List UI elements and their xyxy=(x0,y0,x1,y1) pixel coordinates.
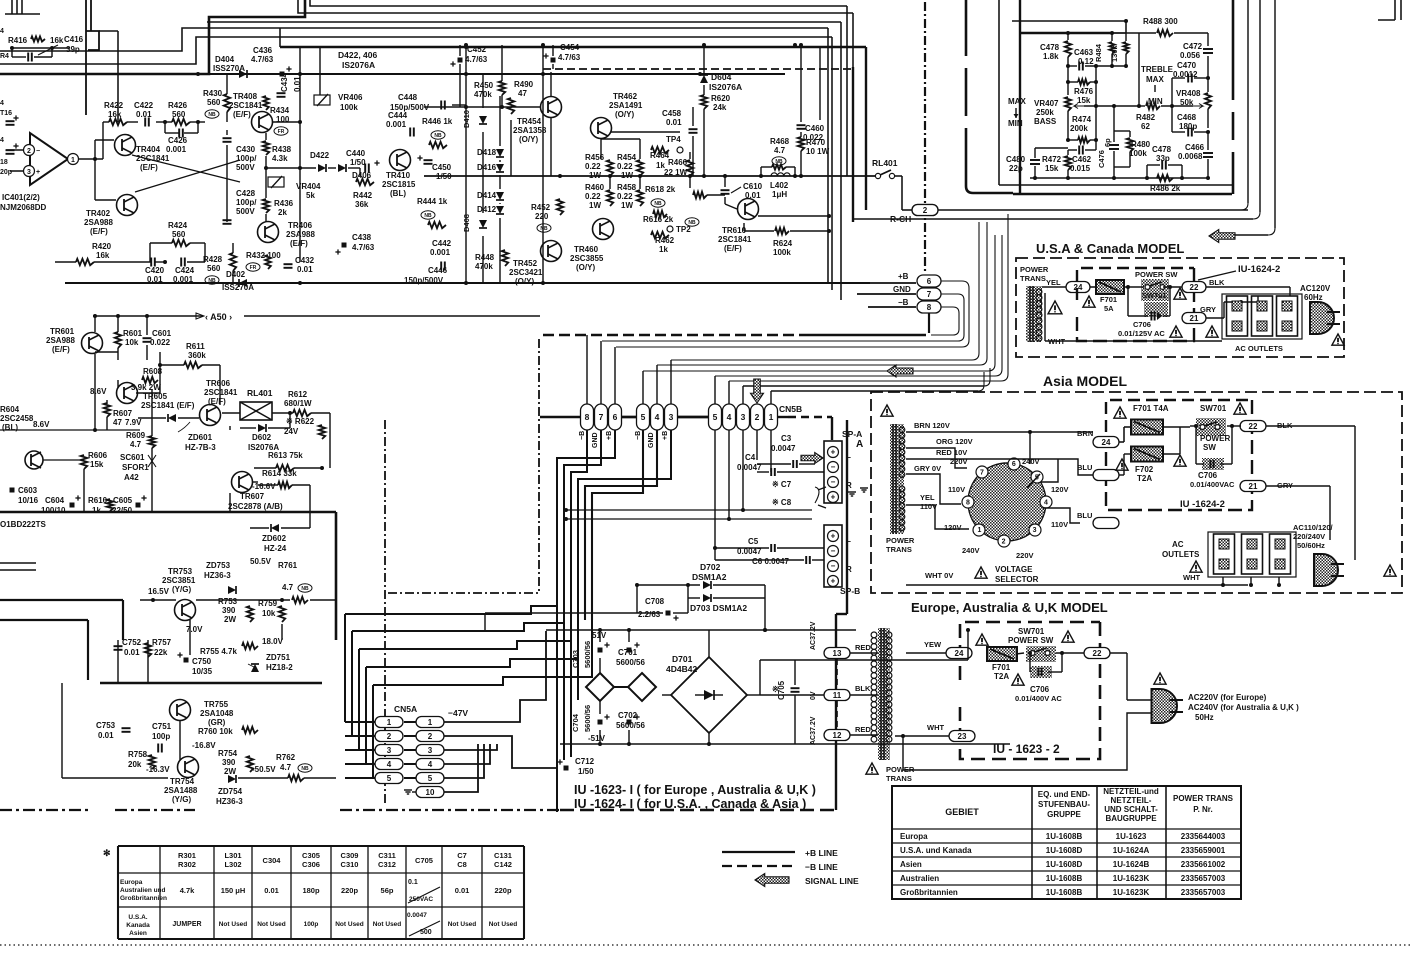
svg-text:P. Nr.: P. Nr. xyxy=(1193,805,1212,814)
svg-text:R613 75k: R613 75k xyxy=(268,451,303,460)
svg-text:C432: C432 xyxy=(295,256,315,265)
dotted page bottom line xyxy=(0,944,1412,946)
svg-text:F701: F701 xyxy=(1100,295,1117,304)
svg-text:AC110/120/: AC110/120/ xyxy=(1293,523,1334,532)
svg-text:GND: GND xyxy=(648,432,655,448)
svg-text:VR408: VR408 xyxy=(1176,89,1201,98)
svg-text:8: 8 xyxy=(966,500,970,507)
svg-text:R301: R301 xyxy=(178,851,196,860)
headphone jack symbol xyxy=(815,487,819,503)
svg-text:56p: 56p xyxy=(381,886,394,895)
pin 12 xyxy=(824,730,850,741)
svg-text:5: 5 xyxy=(428,774,433,783)
speaker terminal SP-A xyxy=(824,441,842,503)
wire dash-dot divider bottom left xyxy=(0,809,90,811)
svg-text:-16.8V: -16.8V xyxy=(192,741,216,750)
transistor TR755 xyxy=(170,700,191,721)
svg-text:20k: 20k xyxy=(128,760,142,769)
svg-text:100k: 100k xyxy=(773,248,791,257)
svg-text:4: 4 xyxy=(1044,500,1048,507)
svg-text:0.022: 0.022 xyxy=(803,133,824,142)
svg-text:2: 2 xyxy=(1002,538,1006,545)
svg-text:C8: C8 xyxy=(457,860,467,869)
wire right vertical drop bus xyxy=(827,28,829,283)
svg-text:C603: C603 xyxy=(18,486,38,495)
svg-text:R759: R759 xyxy=(258,599,278,608)
svg-text:240V: 240V xyxy=(962,546,980,555)
svg-text:Not Used: Not Used xyxy=(373,921,402,928)
svg-text:WHT: WHT xyxy=(1183,573,1200,582)
fuse F701 T4A asia xyxy=(1131,420,1163,435)
svg-text:3: 3 xyxy=(428,746,433,755)
svg-text:C454: C454 xyxy=(560,43,580,52)
svg-text:IU -1624-2: IU -1624-2 xyxy=(1180,499,1225,510)
svg-text:Australien und: Australien und xyxy=(120,887,166,894)
svg-text:UND SCHALT-: UND SCHALT- xyxy=(1104,805,1158,814)
svg-text:R434: R434 xyxy=(270,106,290,115)
svg-text:250k: 250k xyxy=(1036,108,1054,117)
USA model dashed box xyxy=(1016,258,1344,357)
svg-text:BRN 120V: BRN 120V xyxy=(914,421,950,430)
svg-text:GRY: GRY xyxy=(1200,305,1216,314)
svg-text:22/50: 22/50 xyxy=(112,506,133,515)
svg-text:C480: C480 xyxy=(1006,155,1026,164)
wire x801 column xyxy=(800,45,802,122)
svg-text:NETZTEIL-: NETZTEIL- xyxy=(1111,796,1152,805)
wire top-left corner stubs xyxy=(11,0,13,14)
svg-text:T16: T16 xyxy=(0,110,12,117)
svg-text:WHT 0V: WHT 0V xyxy=(925,571,953,580)
svg-text:500V: 500V xyxy=(236,163,255,172)
svg-text:O1BD222TS: O1BD222TS xyxy=(0,520,46,529)
svg-text:10k: 10k xyxy=(262,609,276,618)
connector pin 2 R-CH overdraw xyxy=(912,205,938,216)
svg-text:AC37.2V: AC37.2V xyxy=(810,716,817,745)
svg-text:※: ※ xyxy=(772,685,779,694)
svg-text:A42: A42 xyxy=(124,473,139,482)
svg-text:3: 3 xyxy=(669,412,674,422)
svg-text:L402: L402 xyxy=(770,181,789,190)
switch SW701 usa xyxy=(1141,279,1169,301)
pin 13 xyxy=(824,648,850,659)
svg-text:50.5V: 50.5V xyxy=(250,557,272,566)
svg-text:21: 21 xyxy=(1249,482,1258,491)
svg-text:560: 560 xyxy=(207,98,221,107)
svg-text:TP2: TP2 xyxy=(676,225,691,234)
svg-text:C438: C438 xyxy=(352,233,372,242)
wire thick stair bundle mid xyxy=(345,606,557,614)
svg-text:2SA1048: 2SA1048 xyxy=(200,709,234,718)
svg-text:4.7: 4.7 xyxy=(280,763,292,772)
svg-text:C704: C704 xyxy=(571,713,580,732)
wire dashed -B y69 xyxy=(543,68,853,70)
wire thick vertical x866 xyxy=(865,47,867,210)
svg-text:2SC1841: 2SC1841 xyxy=(229,101,263,110)
svg-text:R606: R606 xyxy=(88,451,108,460)
svg-text:18.0V: 18.0V xyxy=(262,637,284,646)
transistor TR605 xyxy=(117,383,138,404)
svg-text:SW701: SW701 xyxy=(1142,291,1167,300)
svg-text:SP-B: SP-B xyxy=(840,586,860,596)
svg-text:GEBIET: GEBIET xyxy=(945,807,979,817)
asia model dashed box xyxy=(871,392,1402,593)
svg-text:A: A xyxy=(856,439,863,450)
svg-text:4: 4 xyxy=(655,412,660,422)
svg-text:(E/F): (E/F) xyxy=(52,345,70,354)
svg-text:22p: 22p xyxy=(1009,164,1023,173)
wire C452 C454 columns xyxy=(459,45,461,56)
svg-text:R454: R454 xyxy=(617,153,637,162)
pin 21 asia xyxy=(1240,481,1266,492)
table GEBIET bottom-right xyxy=(892,786,1241,899)
svg-text:(O/Y): (O/Y) xyxy=(519,135,538,144)
svg-text:(BL): (BL) xyxy=(390,189,406,198)
svg-text:−B: −B xyxy=(898,298,909,307)
svg-text:12: 12 xyxy=(833,731,842,740)
svg-text:4.7/63: 4.7/63 xyxy=(558,53,581,62)
svg-text:2SC1841 (E/F): 2SC1841 (E/F) xyxy=(141,401,195,410)
svg-text:DSM1A2: DSM1A2 xyxy=(692,572,727,582)
svg-text:C442: C442 xyxy=(432,239,452,248)
wire amp-right rails xyxy=(464,43,468,47)
svg-text:0.01/125V AC: 0.01/125V AC xyxy=(1118,329,1165,338)
wire thick rail y47 xyxy=(280,46,866,48)
svg-text:220p: 220p xyxy=(494,886,512,895)
svg-text:5600/56: 5600/56 xyxy=(583,705,592,732)
svg-text:D422, 406: D422, 406 xyxy=(338,50,377,60)
svg-text:RED: RED xyxy=(855,725,871,734)
svg-text:D701: D701 xyxy=(672,654,693,664)
svg-text:R444 1k: R444 1k xyxy=(417,197,448,206)
svg-text:62: 62 xyxy=(1141,122,1150,131)
svg-text:F701 T4A: F701 T4A xyxy=(1133,404,1169,413)
wire regulator bottom xyxy=(62,777,168,779)
capacitor C706 usa xyxy=(1144,302,1168,317)
svg-text:1U-1623K: 1U-1623K xyxy=(1113,888,1150,897)
wire vertical dashes pin col xyxy=(836,659,838,689)
svg-text:HZ-7B-3: HZ-7B-3 xyxy=(185,443,216,452)
svg-text:R490: R490 xyxy=(514,80,534,89)
svg-text:5k: 5k xyxy=(306,191,315,200)
pin 22 asia xyxy=(1240,421,1266,432)
svg-text:(O/Y): (O/Y) xyxy=(576,263,595,272)
svg-text:200k: 200k xyxy=(1070,124,1088,133)
svg-text:50/60Hz: 50/60Hz xyxy=(1297,541,1325,550)
plug usa xyxy=(1310,302,1334,334)
wire TR610 emitter to bus xyxy=(758,215,829,217)
svg-text:R458: R458 xyxy=(617,183,637,192)
svg-text:100p: 100p xyxy=(304,921,319,928)
svg-text:4: 4 xyxy=(387,760,392,769)
svg-text:+: + xyxy=(831,532,836,541)
wire TR404 base xyxy=(94,140,96,159)
svg-text:5600/56: 5600/56 xyxy=(616,658,645,667)
svg-text:4.7: 4.7 xyxy=(282,583,294,592)
svg-text:2SC3851: 2SC3851 xyxy=(162,576,196,585)
svg-text:36k: 36k xyxy=(355,200,369,209)
svg-text:C476: C476 xyxy=(1097,150,1106,168)
svg-text:IU -1624- I ( for U.S.A. , Ca: IU -1624- I ( for U.S.A. , Canada & Asia… xyxy=(574,797,806,811)
svg-text:TR610: TR610 xyxy=(722,226,747,235)
svg-text:0.0047: 0.0047 xyxy=(771,444,796,453)
svg-text:R422: R422 xyxy=(104,101,124,110)
svg-text:R432 100: R432 100 xyxy=(246,251,281,260)
wire left edge stubs y563 xyxy=(0,562,36,564)
svg-text:R620: R620 xyxy=(711,94,731,103)
svg-text:FR: FR xyxy=(250,265,257,271)
wire bracket x99 xyxy=(86,31,99,50)
svg-text:2SC1841: 2SC1841 xyxy=(136,154,170,163)
svg-text:IS2076A: IS2076A xyxy=(709,82,742,92)
svg-text:R612: R612 xyxy=(288,390,308,399)
svg-text:1.8k: 1.8k xyxy=(1043,52,1059,61)
svg-text:3: 3 xyxy=(387,746,392,755)
svg-text:ZD751: ZD751 xyxy=(266,653,291,662)
AC outlets usa xyxy=(1227,296,1248,336)
svg-text:R760 10k: R760 10k xyxy=(198,727,233,736)
svg-text:C306: C306 xyxy=(302,860,320,869)
svg-text:4: 4 xyxy=(428,760,433,769)
svg-text:MAX: MAX xyxy=(1008,97,1026,106)
op-amp IC401 1/2 xyxy=(30,133,68,185)
svg-text:2335657003: 2335657003 xyxy=(1181,888,1226,897)
svg-text:4: 4 xyxy=(727,412,732,422)
svg-text:-51V: -51V xyxy=(588,734,606,743)
svg-text:R614 33k: R614 33k xyxy=(262,469,297,478)
svg-text:BAUGRUPPE: BAUGRUPPE xyxy=(1105,814,1157,823)
svg-text:0.01/400VAC: 0.01/400VAC xyxy=(1190,480,1235,489)
svg-text:SFOR1: SFOR1 xyxy=(122,463,149,472)
svg-text:0.22: 0.22 xyxy=(617,192,633,201)
svg-text:MIN: MIN xyxy=(1008,119,1023,128)
svg-text:Europe, Australia & U,K MODEL: Europe, Australia & U,K MODEL xyxy=(911,600,1108,615)
svg-text:1U-1608B: 1U-1608B xyxy=(1046,874,1083,883)
capacitor C706 asia xyxy=(1202,458,1224,470)
svg-text:0.0047: 0.0047 xyxy=(407,912,427,919)
svg-text:390: 390 xyxy=(222,758,236,767)
svg-text:D414: D414 xyxy=(477,191,497,200)
svg-text:Europa: Europa xyxy=(900,832,928,841)
svg-text:L301: L301 xyxy=(224,851,241,860)
svg-text:0.001: 0.001 xyxy=(166,145,187,154)
svg-text:C460: C460 xyxy=(805,124,825,133)
svg-text:−: − xyxy=(831,478,836,487)
svg-text:-16.3V: -16.3V xyxy=(146,765,170,774)
AC outlets asia xyxy=(1214,534,1235,574)
svg-text:R754: R754 xyxy=(218,749,238,758)
svg-text:C440: C440 xyxy=(346,149,366,158)
svg-text:BLK: BLK xyxy=(855,684,871,693)
svg-text:+B: +B xyxy=(606,431,613,440)
wire vertical x86 x91 xyxy=(85,0,87,115)
svg-text:BASS: BASS xyxy=(1034,117,1057,126)
svg-text:Not Used: Not Used xyxy=(448,921,477,928)
svg-text:150 μH: 150 μH xyxy=(221,886,246,895)
svg-text:(E/F): (E/F) xyxy=(290,239,308,248)
svg-text:2: 2 xyxy=(27,148,31,155)
wire CN5A staircase left bundle xyxy=(344,614,346,722)
svg-text:RED 10V: RED 10V xyxy=(936,448,967,457)
svg-text:7.0V: 7.0V xyxy=(186,625,203,634)
signal arrow left on hook line xyxy=(887,365,913,377)
svg-text:FR: FR xyxy=(278,129,285,135)
transistor TR753 xyxy=(175,600,196,621)
wire relay drive xyxy=(222,412,240,414)
wire protection extra xyxy=(95,351,118,353)
svg-text:(E/F): (E/F) xyxy=(233,110,251,119)
svg-text:TR402: TR402 xyxy=(86,209,111,218)
svg-text:C750: C750 xyxy=(192,657,212,666)
svg-text:C466: C466 xyxy=(1185,143,1205,152)
svg-text:60Hz: 60Hz xyxy=(1304,293,1323,302)
wire thick bus y513 xyxy=(0,511,336,514)
svg-text:SW701: SW701 xyxy=(1200,404,1227,413)
svg-text:SP-A: SP-A xyxy=(842,429,862,439)
svg-text:NJM2068DD: NJM2068DD xyxy=(0,203,46,212)
wire europe xyxy=(906,652,946,654)
connector pin 2 R-CH xyxy=(912,205,938,216)
svg-text:100/10: 100/10 xyxy=(41,506,66,515)
svg-text:47: 47 xyxy=(113,418,122,427)
svg-text:4.7/63: 4.7/63 xyxy=(465,55,488,64)
svg-text:VR407: VR407 xyxy=(1034,99,1059,108)
resistor R476 15k xyxy=(1068,81,1078,83)
svg-text:C430: C430 xyxy=(236,145,256,154)
svg-text:(E/F): (E/F) xyxy=(140,163,158,172)
svg-text:ORG 120V: ORG 120V xyxy=(936,437,973,446)
svg-text:2SC3421: 2SC3421 xyxy=(509,268,543,277)
connector row pills 5 4 3 xyxy=(637,404,650,430)
svg-text:4: 4 xyxy=(0,28,4,35)
svg-text:8: 8 xyxy=(927,303,932,312)
diode D703 DSM1A2 xyxy=(688,597,700,599)
svg-text:NB: NB xyxy=(208,112,216,118)
svg-text:TR462: TR462 xyxy=(613,92,638,101)
svg-text:R426: R426 xyxy=(168,101,188,110)
svg-text:2: 2 xyxy=(923,206,928,215)
svg-text:3: 3 xyxy=(27,169,31,176)
svg-text:220p: 220p xyxy=(341,886,359,895)
svg-text:Asien: Asien xyxy=(129,930,147,937)
svg-text:D416: D416 xyxy=(477,163,497,172)
svg-text:R484: R484 xyxy=(1094,43,1103,62)
svg-text:C304: C304 xyxy=(263,856,282,865)
svg-text:C5: C5 xyxy=(748,537,759,546)
transistor TR402 xyxy=(117,195,138,216)
svg-text:SELECTOR: SELECTOR xyxy=(995,575,1039,584)
svg-text:0.015: 0.015 xyxy=(1070,164,1091,173)
svg-text:1U-1623: 1U-1623 xyxy=(1116,832,1147,841)
svg-text:R761: R761 xyxy=(278,561,298,570)
svg-text:+B LINE: +B LINE xyxy=(805,848,838,858)
svg-text:VOLTAGE: VOLTAGE xyxy=(995,565,1033,574)
svg-text:R618 2k: R618 2k xyxy=(645,185,676,194)
svg-text:0.01: 0.01 xyxy=(666,118,682,127)
svg-text:22: 22 xyxy=(1093,649,1102,658)
svg-text:4: 4 xyxy=(0,100,4,107)
wire thick dashed border y335 xyxy=(543,334,800,337)
transistor TR454 xyxy=(541,97,562,118)
wire nested hooks second set xyxy=(671,222,979,360)
wire thick dashed vertical x966 xyxy=(965,0,968,56)
wire bus staircase top-left thick xyxy=(0,0,305,74)
svg-text:C446: C446 xyxy=(428,266,448,275)
svg-text:0.22: 0.22 xyxy=(585,162,601,171)
svg-text:HZ18-2: HZ18-2 xyxy=(266,663,293,672)
svg-text:(GR): (GR) xyxy=(208,718,226,727)
svg-text:HZ36-3: HZ36-3 xyxy=(216,797,243,806)
connector row pills 8 7 6 xyxy=(581,404,594,430)
svg-text:POWER TRANS: POWER TRANS xyxy=(1173,794,1234,803)
svg-text:15k: 15k xyxy=(1077,96,1091,105)
svg-text:5: 5 xyxy=(387,774,392,783)
pin 24 usa xyxy=(1066,282,1090,293)
wire amp input row xyxy=(103,121,109,123)
svg-text:C706: C706 xyxy=(1133,320,1151,329)
svg-text:R450: R450 xyxy=(474,81,494,90)
transistor TR607 xyxy=(232,472,253,493)
transistor TR408 xyxy=(252,112,273,133)
svg-text:GND: GND xyxy=(592,432,599,448)
svg-text:2335659001: 2335659001 xyxy=(1181,846,1226,855)
svg-text:C706: C706 xyxy=(1030,685,1050,694)
svg-text:4.7: 4.7 xyxy=(774,146,786,155)
svg-text:2335644003: 2335644003 xyxy=(1181,832,1226,841)
svg-text:220V: 220V xyxy=(1016,551,1034,560)
svg-text:R4: R4 xyxy=(0,53,9,60)
svg-text:1k: 1k xyxy=(659,245,668,254)
svg-text:U.S.A.: U.S.A. xyxy=(128,914,147,921)
wire regulator mid rail xyxy=(100,682,322,684)
europe thick dashed box IU-1623-2 xyxy=(960,622,1100,680)
svg-text:110V: 110V xyxy=(1051,520,1068,529)
svg-text:R482: R482 xyxy=(1136,113,1156,122)
wire output bus y176 xyxy=(424,175,875,177)
wire long rail y74 xyxy=(209,73,785,75)
svg-text:C462: C462 xyxy=(1072,155,1092,164)
svg-text:TR410: TR410 xyxy=(386,171,411,180)
capacitor C462 0.015 xyxy=(1068,149,1077,151)
svg-text:1/50: 1/50 xyxy=(350,158,366,167)
svg-text:POWER SW: POWER SW xyxy=(1135,270,1178,279)
svg-text:2SA988: 2SA988 xyxy=(286,230,315,239)
transistor TR452 xyxy=(541,241,562,262)
svg-text:C311: C311 xyxy=(378,851,396,860)
wire CN5B pin drops xyxy=(714,430,716,560)
svg-text:✻: ✻ xyxy=(103,848,111,858)
wire bottom rail tone xyxy=(1030,177,1208,179)
svg-text:C610: C610 xyxy=(743,182,763,191)
svg-text:(O/Y): (O/Y) xyxy=(615,110,634,119)
svg-text:2SA988: 2SA988 xyxy=(46,336,75,345)
svg-text:C428: C428 xyxy=(236,189,256,198)
svg-text:R757: R757 xyxy=(152,638,172,647)
svg-text:2SC3855: 2SC3855 xyxy=(570,254,604,263)
svg-text:500V: 500V xyxy=(236,207,255,216)
svg-text:C416: C416 xyxy=(64,35,84,44)
transformer usa xyxy=(1026,286,1042,342)
svg-text:1U-1624B: 1U-1624B xyxy=(1113,860,1150,869)
transistor TR601 xyxy=(82,333,103,354)
transistor TR404 xyxy=(115,135,136,156)
svg-text:GND: GND xyxy=(893,285,911,294)
svg-text:4.7/63: 4.7/63 xyxy=(251,55,274,64)
transistor TR610 xyxy=(738,199,759,220)
svg-text:Kanada: Kanada xyxy=(126,922,150,929)
svg-text:JUMPER: JUMPER xyxy=(172,921,201,928)
wire CN5A right to psu jogs xyxy=(444,631,546,722)
svg-text:−: − xyxy=(36,148,40,155)
